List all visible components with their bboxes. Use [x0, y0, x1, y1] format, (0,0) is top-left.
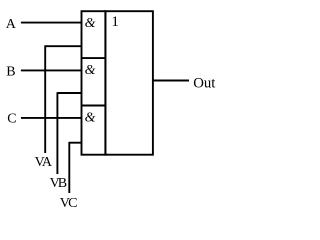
- svg-text:C: C: [7, 112, 16, 127]
- svg-text:VA: VA: [35, 155, 53, 170]
- wire Out: [153, 80, 189, 82]
- svg-text:Out: Out: [193, 75, 216, 91]
- wire VC horizontal: [69, 142, 81, 144]
- divider between AND cell 1 and 2: [82, 57, 106, 59]
- wire VB horizontal: [57, 92, 81, 94]
- wire VB vertical: [56, 92, 58, 174]
- wire VC vertical: [68, 142, 70, 193]
- divider between AND cell 2 and 3: [82, 105, 106, 107]
- svg-text:&: &: [85, 110, 96, 125]
- svg-text:B: B: [6, 65, 15, 80]
- wire VA horizontal: [45, 45, 81, 47]
- svg-text:&: &: [85, 63, 96, 78]
- svg-text:A: A: [6, 17, 17, 32]
- AND gate column box (three & cells): [82, 11, 106, 155]
- svg-text:VC: VC: [60, 196, 77, 211]
- wire VA vertical: [44, 45, 46, 153]
- svg-text:VB: VB: [50, 176, 67, 191]
- OR gate box: [105, 11, 152, 155]
- wire A: [21, 22, 82, 24]
- wire B: [21, 69, 82, 71]
- wire C: [21, 117, 82, 119]
- svg-text:1: 1: [111, 14, 119, 30]
- svg-text:&: &: [85, 16, 96, 31]
